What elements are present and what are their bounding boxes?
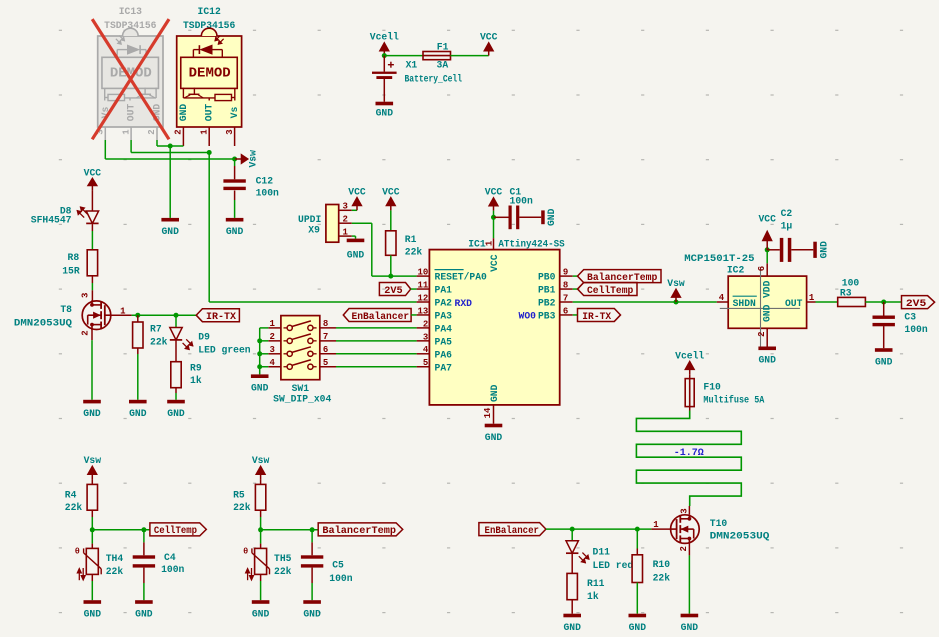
- svg-text:θ: θ: [75, 547, 80, 557]
- svg-text:1µ: 1µ: [781, 221, 793, 232]
- svg-text:R7: R7: [150, 324, 162, 335]
- wire OUT down to PA2 row: [209, 153, 416, 303]
- connector X9 UPDI: [298, 202, 352, 243]
- svg-text:PA4: PA4: [435, 324, 453, 335]
- wire R10 to GND: [636, 583, 638, 614]
- ground under R10: [629, 614, 647, 633]
- svg-text:2: 2: [423, 319, 428, 329]
- diode D11 LED red: [566, 541, 633, 571]
- power flag Vcell (F10): [675, 350, 704, 374]
- wire PB3 to label: [573, 314, 578, 316]
- wire R3 to junction: [865, 301, 883, 303]
- svg-text:GND: GND: [167, 408, 185, 419]
- ground under T8: [83, 400, 101, 419]
- svg-text:GND: GND: [84, 608, 102, 619]
- wire PB2 Vsw net: [573, 301, 717, 303]
- svg-text:TH5: TH5: [274, 553, 292, 564]
- wire junction to C4: [143, 530, 145, 556]
- DNP cross over IC13: [92, 19, 169, 139]
- power flag Vsw (PB2): [667, 278, 685, 302]
- svg-text:VCC: VCC: [489, 254, 500, 272]
- resistor R9 1k: [171, 362, 202, 388]
- svg-text:IC1: IC1: [468, 239, 486, 250]
- svg-text:1: 1: [199, 129, 209, 135]
- svg-text:GND: GND: [818, 241, 829, 259]
- svg-text:R11: R11: [587, 578, 605, 589]
- svg-text:GND: GND: [347, 250, 365, 261]
- node junction C4 tap: [141, 527, 146, 532]
- wire junction to D9: [175, 315, 177, 327]
- wire IC2 OUT to R3: [816, 301, 838, 303]
- wire SW1.5 to PA7: [336, 366, 417, 368]
- svg-text:3A: 3A: [437, 60, 449, 71]
- svg-text:2: 2: [343, 215, 348, 225]
- svg-text:R9: R9: [190, 362, 202, 373]
- svg-text:CellTemp: CellTemp: [587, 285, 633, 297]
- wire R4 to junction: [91, 510, 93, 530]
- power flag VCC (R1): [382, 187, 400, 211]
- hier label CellTemp: [150, 523, 206, 537]
- svg-text:GND: GND: [875, 356, 893, 367]
- svg-text:GND: GND: [681, 622, 699, 633]
- wire junction to TH4: [91, 530, 93, 549]
- svg-text:θ: θ: [243, 547, 248, 557]
- svg-text:2: 2: [757, 331, 767, 336]
- svg-text:R10: R10: [653, 559, 671, 570]
- svg-text:PA2: PA2: [435, 298, 453, 309]
- svg-text:1: 1: [121, 129, 131, 135]
- wire fuse to VCC: [451, 55, 489, 57]
- svg-text:GND: GND: [135, 608, 153, 619]
- capacitor C3 100n: [873, 312, 928, 336]
- svg-text:3: 3: [423, 332, 428, 342]
- svg-text:OUT: OUT: [126, 104, 137, 122]
- svg-text:PB0: PB0: [538, 272, 556, 283]
- svg-text:2V5: 2V5: [906, 299, 926, 310]
- svg-text:Vsw: Vsw: [247, 150, 258, 168]
- svg-text:Vsw: Vsw: [667, 278, 685, 289]
- svg-text:DMN2053UQ: DMN2053UQ: [710, 530, 770, 541]
- svg-text:22k: 22k: [150, 337, 168, 348]
- wire Vcell to F10: [689, 374, 691, 378]
- svg-text:C2: C2: [781, 208, 793, 219]
- svg-text:IR-TX: IR-TX: [582, 312, 611, 323]
- svg-text:C5: C5: [332, 559, 344, 570]
- svg-text:SHDN: SHDN: [733, 298, 756, 309]
- svg-text:Vcell: Vcell: [370, 32, 399, 43]
- svg-text:2: 2: [679, 546, 689, 551]
- svg-text:IC2: IC2: [727, 264, 745, 275]
- wire VCC to D8: [91, 190, 93, 211]
- wire C4 to GND: [143, 568, 145, 601]
- ground under receiver GND net: [161, 218, 179, 237]
- svg-text:GND: GND: [129, 408, 147, 419]
- svg-text:VCC: VCC: [84, 167, 102, 178]
- svg-text:SW_DIP_x04: SW_DIP_x04: [273, 394, 331, 405]
- svg-text:GND: GND: [252, 608, 270, 619]
- power flag VCC (UPDI): [348, 186, 366, 210]
- svg-text:14: 14: [483, 407, 493, 418]
- svg-text:2: 2: [81, 330, 91, 335]
- svg-text:IC12: IC12: [198, 6, 221, 17]
- svg-text:PA3: PA3: [435, 311, 453, 322]
- wire OUT net IC13.1-IC12.1: [131, 152, 209, 154]
- wire junction to C3: [883, 302, 885, 316]
- power flag VCC (IC2): [758, 214, 776, 250]
- wire SW1.8 to PA4: [336, 327, 417, 329]
- ground under T10: [681, 614, 699, 633]
- node junction R10 tap: [635, 527, 640, 532]
- wire SW1.7 to PA5: [336, 340, 417, 342]
- capacitor C5 100n: [301, 555, 353, 584]
- svg-text:CellTemp: CellTemp: [154, 525, 197, 537]
- power flag Vsw (R5): [252, 455, 270, 479]
- svg-text:Vs: Vs: [229, 107, 240, 119]
- svg-text:VDD: VDD: [761, 280, 772, 298]
- node junction VCC/C2: [765, 247, 770, 252]
- svg-text:PB3: PB3: [538, 311, 556, 322]
- node junction SW1 pin4: [257, 364, 262, 369]
- svg-text:VCC: VCC: [382, 187, 400, 198]
- svg-text:GND: GND: [178, 104, 189, 122]
- wire EnBalancer to T10 gate: [546, 528, 671, 530]
- node junction SW1 pin3: [257, 351, 262, 356]
- wire C3 to GND: [883, 326, 885, 348]
- ground under TH5: [252, 600, 270, 619]
- diode D9 LED green: [170, 328, 251, 356]
- power flag VCC (D8): [84, 167, 102, 190]
- IC IC1 ATtiny424-SS: [417, 238, 573, 424]
- svg-text:100n: 100n: [329, 573, 352, 584]
- wire junction to 2V5 label: [884, 301, 902, 303]
- svg-text:Vcell: Vcell: [675, 350, 704, 361]
- svg-text:LED green: LED green: [198, 345, 251, 356]
- svg-text:VCC: VCC: [485, 187, 503, 198]
- wire T8 gate to net: [111, 314, 197, 316]
- wire R7 to GND: [137, 348, 139, 400]
- svg-text:OUT: OUT: [785, 298, 803, 309]
- svg-text:GND: GND: [251, 383, 269, 394]
- svg-text:T8: T8: [60, 304, 72, 315]
- wire SW1.6 to PA6: [336, 353, 417, 355]
- svg-text:LED red: LED red: [593, 560, 634, 571]
- svg-text:GND: GND: [489, 384, 500, 402]
- svg-text:GND: GND: [485, 432, 503, 443]
- svg-text:4: 4: [423, 345, 429, 355]
- svg-text:BalancerTemp: BalancerTemp: [322, 525, 396, 537]
- svg-text:X9: X9: [308, 224, 320, 235]
- svg-text:MCP1501T-25: MCP1501T-25: [684, 253, 754, 264]
- svg-text:22k: 22k: [274, 566, 292, 577]
- svg-text:C4: C4: [164, 552, 176, 563]
- svg-text:RXD: RXD: [455, 298, 473, 309]
- power flag VCC (IC1): [485, 187, 503, 211]
- svg-text:VCC: VCC: [758, 214, 776, 225]
- svg-text:D11: D11: [593, 546, 611, 557]
- resistor R10 22k: [632, 555, 670, 584]
- svg-text:4: 4: [719, 293, 725, 303]
- ground under IC1: [485, 424, 503, 443]
- svg-text:GND: GND: [226, 226, 244, 237]
- ground under TH4: [84, 600, 102, 619]
- wire T8 source to GND: [91, 330, 93, 400]
- svg-text:R8: R8: [68, 252, 80, 263]
- svg-text:R3: R3: [840, 288, 852, 299]
- ground under R9: [167, 400, 185, 419]
- svg-text:4: 4: [269, 358, 275, 368]
- IC IC13 TSDP34156 (DNP, ghosted): [96, 6, 164, 140]
- wire VCC to R1: [390, 210, 392, 230]
- svg-text:10: 10: [417, 268, 428, 278]
- svg-text:1: 1: [269, 319, 275, 329]
- svg-text:PA7: PA7: [435, 362, 453, 373]
- svg-text:8: 8: [323, 319, 328, 329]
- svg-text:8: 8: [563, 280, 568, 290]
- ground under SW1: [251, 374, 269, 393]
- svg-text:-1.7Ω: -1.7Ω: [674, 448, 704, 459]
- wire meander shunt resistor: [636, 411, 741, 507]
- wire PB0 to label: [573, 275, 578, 277]
- wire junction to R10: [636, 529, 638, 555]
- svg-text:EnBalancer: EnBalancer: [352, 311, 410, 323]
- svg-text:VCC: VCC: [480, 32, 498, 43]
- wire battery to fuse F1: [384, 55, 423, 57]
- svg-text:X1: X1: [406, 60, 418, 71]
- wire PB1 to label: [573, 288, 578, 290]
- svg-text:C3: C3: [904, 312, 916, 323]
- svg-text:GND: GND: [629, 622, 647, 633]
- wire junction to R7: [137, 315, 139, 322]
- node junction D11 tap: [570, 527, 575, 532]
- svg-text:1: 1: [809, 293, 815, 303]
- svg-text:13: 13: [417, 306, 428, 316]
- ground under R7: [129, 400, 147, 419]
- wire IC13 pin stubs to nets: [105, 140, 157, 159]
- svg-text:22k: 22k: [405, 246, 423, 257]
- svg-text:Multifuse 5A: Multifuse 5A: [703, 395, 764, 406]
- svg-text:OUT: OUT: [204, 104, 215, 122]
- svg-text:15R: 15R: [62, 265, 80, 276]
- wire C12 to GND: [234, 191, 236, 218]
- svg-text:2: 2: [147, 129, 157, 134]
- wire junction to label: [92, 529, 150, 531]
- wire Vsw to R4: [91, 479, 93, 484]
- ground under C12: [226, 218, 244, 237]
- node junction SW1 pin2: [257, 338, 262, 343]
- capacitor C1 100n: [494, 187, 542, 230]
- hier label EnBalancer (driver): [479, 523, 546, 537]
- svg-text:2V5: 2V5: [384, 286, 402, 297]
- wire R9 to GND: [175, 388, 177, 400]
- wire Vsw to R5: [260, 479, 262, 484]
- hier label EnBalancer (PA3): [343, 308, 411, 322]
- ground right of C1 (rotated): [541, 208, 557, 226]
- svg-text:PA1: PA1: [435, 285, 453, 296]
- svg-text:PA5: PA5: [435, 336, 453, 347]
- power flag VCC (battery side): [480, 32, 498, 56]
- svg-text:DEMOD: DEMOD: [189, 66, 231, 82]
- ground under IC2: [758, 347, 776, 366]
- power label Vsw (right arrow): [235, 150, 259, 168]
- node junction Vsw/C12: [232, 157, 237, 162]
- thermistor TH4 22k: [75, 547, 124, 581]
- capacitor C2 1u: [767, 208, 813, 262]
- svg-text:GND: GND: [546, 208, 557, 226]
- svg-text:22k: 22k: [653, 572, 671, 583]
- wire TH5 to GND: [260, 574, 262, 600]
- svg-text:F1: F1: [437, 41, 449, 52]
- wire D8 to R8: [91, 224, 93, 249]
- svg-text:3: 3: [343, 202, 348, 212]
- wire junction to C5: [311, 530, 313, 556]
- hier label CellTemp (IC1): [578, 283, 638, 297]
- wire D11 to R11: [571, 553, 573, 573]
- svg-text:1k: 1k: [190, 375, 202, 386]
- svg-text:3: 3: [225, 129, 235, 134]
- wire D9 to R9: [175, 340, 177, 362]
- wire VCC stem to pin6: [766, 250, 768, 263]
- resistor R3 100: [838, 278, 866, 307]
- svg-text:6: 6: [563, 306, 568, 316]
- ground under C5: [303, 600, 321, 619]
- svg-text:ATtiny424-SS: ATtiny424-SS: [498, 239, 564, 250]
- wire X9.2 to RESET net: [352, 223, 417, 276]
- wire VCC down to IC1 pin1: [493, 217, 495, 238]
- resistor R8 15R: [62, 250, 97, 276]
- wire X9.1 to GND: [352, 236, 356, 239]
- svg-text:100n: 100n: [510, 196, 533, 207]
- svg-text:12: 12: [417, 293, 428, 303]
- svg-text:7: 7: [563, 293, 568, 303]
- svg-text:22k: 22k: [106, 566, 124, 577]
- wire 2V5 to PA1: [411, 288, 417, 290]
- node junction D9 tap: [174, 313, 179, 318]
- svg-text:PB1: PB1: [538, 285, 556, 296]
- svg-text:PB2: PB2: [538, 298, 556, 309]
- svg-text:100n: 100n: [256, 187, 279, 198]
- node junction GND drop: [168, 144, 173, 218]
- ground under C4: [135, 600, 153, 619]
- wire junction to TH5: [260, 530, 262, 549]
- svg-text:WO0: WO0: [519, 311, 537, 322]
- svg-text:3: 3: [269, 345, 274, 355]
- svg-text:GND: GND: [376, 108, 394, 119]
- svg-text:GND: GND: [563, 622, 581, 633]
- switch SW1 SW_DIP_x04: [268, 316, 336, 405]
- fuse F1: [423, 41, 451, 70]
- svg-text:GND: GND: [758, 355, 776, 366]
- node junction Vsw tap: [674, 300, 679, 305]
- node junction battery top: [382, 53, 387, 58]
- svg-text:R5: R5: [233, 490, 245, 501]
- node junction TH5 top: [258, 527, 263, 532]
- svg-text:C12: C12: [256, 176, 274, 187]
- wire VCC to junction: [493, 211, 495, 218]
- svg-text:GND: GND: [761, 304, 772, 322]
- IC IC2 MCP1501T-25: [684, 253, 815, 348]
- transistor T8 DMN2053UQ: [14, 293, 126, 336]
- hier label BalancerTemp: [318, 523, 403, 537]
- ground under C3: [875, 348, 893, 367]
- svg-text:2: 2: [174, 129, 184, 134]
- hier label 2V5 (PA1): [379, 283, 410, 297]
- svg-text:PA6: PA6: [435, 349, 453, 360]
- svg-text:D9: D9: [198, 332, 210, 343]
- wire C5 to GND: [311, 568, 313, 601]
- node junction VCC/C1: [491, 215, 496, 220]
- svg-text:VCC: VCC: [348, 186, 366, 197]
- svg-text:Battery_Cell: Battery_Cell: [405, 74, 463, 85]
- svg-text:SW1: SW1: [292, 383, 310, 394]
- node junction OUT: [207, 150, 212, 155]
- hier label BalancerTemp (IC1): [578, 270, 662, 284]
- power flag Vsw (R4): [84, 455, 102, 479]
- svg-text:5: 5: [423, 358, 428, 368]
- wire junction to D11: [571, 529, 573, 541]
- svg-text:2: 2: [269, 332, 274, 342]
- thermistor TH5 22k: [243, 547, 292, 581]
- ground right of C2 (rotated): [813, 241, 829, 259]
- svg-text:F10: F10: [703, 382, 721, 393]
- wire junction to C12: [234, 159, 236, 179]
- resistor R7 22k: [133, 322, 168, 348]
- resistor R11 1k: [567, 573, 605, 602]
- node junction R1/RESET: [388, 274, 393, 279]
- wire R1 to junction: [390, 255, 392, 276]
- svg-text:GND: GND: [161, 226, 179, 237]
- node junction R7 tap: [135, 313, 140, 318]
- svg-text:1: 1: [343, 228, 349, 238]
- transistor T10 DMN2053UQ: [653, 508, 769, 551]
- wire EnBalancer to PA3: [411, 314, 417, 316]
- wire GND net IC13.2-IC12.2: [157, 145, 183, 147]
- svg-text:TH4: TH4: [106, 553, 124, 564]
- wire X9.3 to VCC: [352, 209, 357, 211]
- svg-text:3: 3: [680, 508, 690, 513]
- power flag Vcell (battery): [370, 32, 399, 56]
- ground under X9: [347, 239, 365, 261]
- diode D8 SFH4547 IR emitter: [31, 206, 99, 226]
- node junction 2V5/C3: [881, 300, 886, 305]
- svg-text:IC13: IC13: [119, 6, 142, 17]
- svg-text:9: 9: [563, 268, 568, 278]
- svg-text:Vsw: Vsw: [84, 455, 102, 466]
- battery X1 Battery_Cell: [372, 56, 462, 102]
- hier label 2V5 (output): [902, 296, 935, 310]
- ground under R11: [563, 614, 581, 633]
- wire F10 to meander: [689, 407, 691, 411]
- value label -1.7ohm: [674, 448, 704, 459]
- svg-text:EnBalancer: EnBalancer: [485, 525, 540, 537]
- node junction TH4 top: [90, 527, 95, 532]
- svg-text:SFH4547: SFH4547: [31, 214, 72, 225]
- svg-text:Vsw: Vsw: [252, 455, 270, 466]
- svg-text:GND: GND: [303, 608, 321, 619]
- wire R5 to junction: [260, 510, 262, 530]
- wire R11 to GND: [571, 600, 573, 614]
- wire SW1 left pins to GND: [260, 328, 269, 375]
- wire meander to T10 drain: [688, 506, 690, 514]
- svg-text:GND: GND: [83, 408, 101, 419]
- svg-text:R4: R4: [65, 490, 77, 501]
- wire TH4 to GND: [91, 574, 93, 600]
- fuse F10 Multifuse 5A: [685, 379, 764, 407]
- svg-text:100n: 100n: [904, 324, 927, 335]
- resistor R5 22k: [233, 484, 266, 513]
- hier label IR-TX (T8 side): [196, 309, 239, 323]
- svg-text:DMN2053UQ: DMN2053UQ: [14, 318, 72, 329]
- svg-text:1k: 1k: [587, 591, 599, 602]
